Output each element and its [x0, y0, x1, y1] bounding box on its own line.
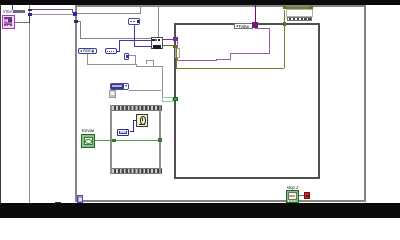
wire: purple jog v x=216.2 — [216, 59, 217, 61]
wire: None2 out right y=90.4 — [129, 90, 162, 91]
while loop iteration terminal — [77, 195, 83, 203]
tunnel: olive on case left edge — [173, 45, 177, 49]
wire: C vertical up x=121.8 — [119, 40, 120, 52]
wire: purple inside case: selector down — [255, 28, 256, 29]
wire: dark segment up the x=29 line — [29, 16, 30, 23]
stop 2 label — [287, 185, 299, 190]
node E (VISA Configure Serial Port) — [151, 37, 163, 49]
wire: vertical x=161.5 down to green tunnel box — [162, 66, 163, 97]
hollow green tunnel box left of case — [162, 97, 173, 102]
wire: short horizontal y=60.4 — [146, 60, 153, 61]
wire: node E purple out to case tunnel — [163, 39, 174, 40]
wire: 1000 to metronome — [130, 131, 134, 132]
wire: purple vertical from top bar to selector — [255, 5, 256, 23]
wire: purple h y=28.2 — [255, 28, 270, 29]
combo None2 (dark) — [110, 83, 129, 91]
flat sequence frame: top film band — [110, 105, 162, 111]
wire: vertical x=140 up to top bar — [140, 5, 141, 14]
VISA resource label highlighted part — [13, 10, 25, 13]
wire: blue horizontal into node E lower input — [134, 46, 151, 47]
junction: dark purple on loop edge — [74, 20, 78, 23]
wire: inside loop horizontal y=12.8 to x=140 — [77, 13, 141, 14]
flat sequence frame: right edge — [159, 105, 161, 174]
wire: horizontal y=66.4 — [136, 66, 162, 67]
tunnel: green on case left edge — [173, 97, 178, 102]
wire: from top bar down to VISA label — [12, 5, 13, 11]
combo constant None1 — [78, 48, 97, 54]
Enviar label — [82, 128, 94, 133]
wire: olive h y=68.4 — [176, 68, 285, 69]
wire: purple h y=60.15 — [177, 60, 216, 61]
VISA resource label text — [3, 9, 13, 14]
case structure border — [174, 23, 320, 179]
numeric constant D — [128, 18, 141, 24]
numeric constant C (9600) — [105, 48, 117, 54]
wire: purple top horizontal y=9.8 — [32, 9, 73, 10]
small gray boxlet under None2 — [109, 90, 116, 97]
bottom black letterbox bar — [0, 203, 400, 218]
wire: olive v x=284 up to top tunnel — [284, 25, 285, 68]
wire: purple h y=60.2 — [177, 41, 178, 60]
array constant white body — [286, 9, 313, 17]
selector diamond (purple) — [252, 22, 257, 27]
wire: stop button to conditional terminal — [299, 195, 304, 196]
hollow tunnel box below olive tunnel — [175, 48, 180, 58]
tunnel: purple on x=29 line — [28, 9, 32, 12]
top black letterbox bar — [0, 0, 400, 5]
numeric constant 1000 (dark blue) in sequence — [117, 129, 129, 136]
wire: purple v x=269 — [269, 28, 270, 53]
wire: horizontal y=38.4 to node E — [80, 38, 151, 39]
flat sequence frame: left edge — [110, 105, 112, 174]
smudge on bottom bar edge — [55, 202, 61, 203]
wire: connector v x=136 — [136, 64, 137, 67]
array constant top-right: olive top bar with corner dots — [284, 7, 312, 8]
tunnel: blue on while loop left edge — [73, 12, 77, 16]
wire: None1 horizontal y=63.8 — [87, 64, 136, 65]
flat sequence frame: bottom film band — [110, 168, 162, 174]
Enviar button terminal — [81, 134, 95, 147]
tunnel: blue on x=29 line — [28, 13, 32, 16]
wire: VISA icon to x=29 line (horizontal) — [15, 22, 30, 23]
wire: blue vertical from D down — [134, 24, 135, 47]
case selector label box — [234, 23, 253, 29]
wire: D2 out right y=54.6 — [129, 55, 136, 56]
array constant element row — [287, 17, 312, 21]
wire: vertical x=146 — [146, 60, 147, 64]
wire: purple v x=230 — [230, 53, 231, 59]
wire: green inside sequence — [116, 140, 159, 141]
small constant D2 — [124, 53, 129, 60]
left screen edge line — [0, 4, 1, 203]
wire: C horizontal y=40.2 into node E — [119, 40, 151, 41]
while loop border — [75, 5, 366, 202]
wire: olive v from array const corner down to case — [284, 10, 285, 23]
wire: gray-purple horizontal y=14.2 — [32, 14, 73, 15]
wire: node E olive out to case tunnel — [163, 45, 174, 46]
wire: vertical x=80 down to y=38.4 — [80, 21, 81, 38]
wire: olive v inside from tunnel — [176, 48, 177, 68]
loop conditional terminal (red) — [304, 192, 309, 199]
wire: purple h y=58.9 — [216, 59, 230, 60]
wire: green Enviar to sequence — [95, 140, 112, 141]
wire: C out stub right — [117, 51, 120, 52]
stop button terminal — [286, 190, 299, 203]
outer structure left edge (vertical gray line x=29) — [29, 5, 30, 203]
wire: None1 vertical down x=87.3 — [87, 54, 88, 64]
tunnel: olive on case top edge — [283, 22, 287, 25]
wire: vertical x=157.9 from top bar down to node E — [158, 5, 159, 38]
tunnel: purple on case left edge — [173, 37, 177, 41]
VISA resource icon — [2, 15, 15, 29]
metronome (Wait ms) icon — [136, 114, 148, 127]
wire: D2 vertical x=135.2 — [135, 55, 136, 64]
wire: purple h y=53.3 — [230, 53, 270, 54]
wire: vertical x=153.2 — [153, 60, 154, 66]
wire: step down at x=72.5 — [72, 10, 73, 13]
wire: junction to x=80 — [78, 21, 81, 22]
tunnel: green on sequence right edge — [158, 138, 162, 142]
tunnel: green on sequence left edge — [112, 139, 116, 143]
